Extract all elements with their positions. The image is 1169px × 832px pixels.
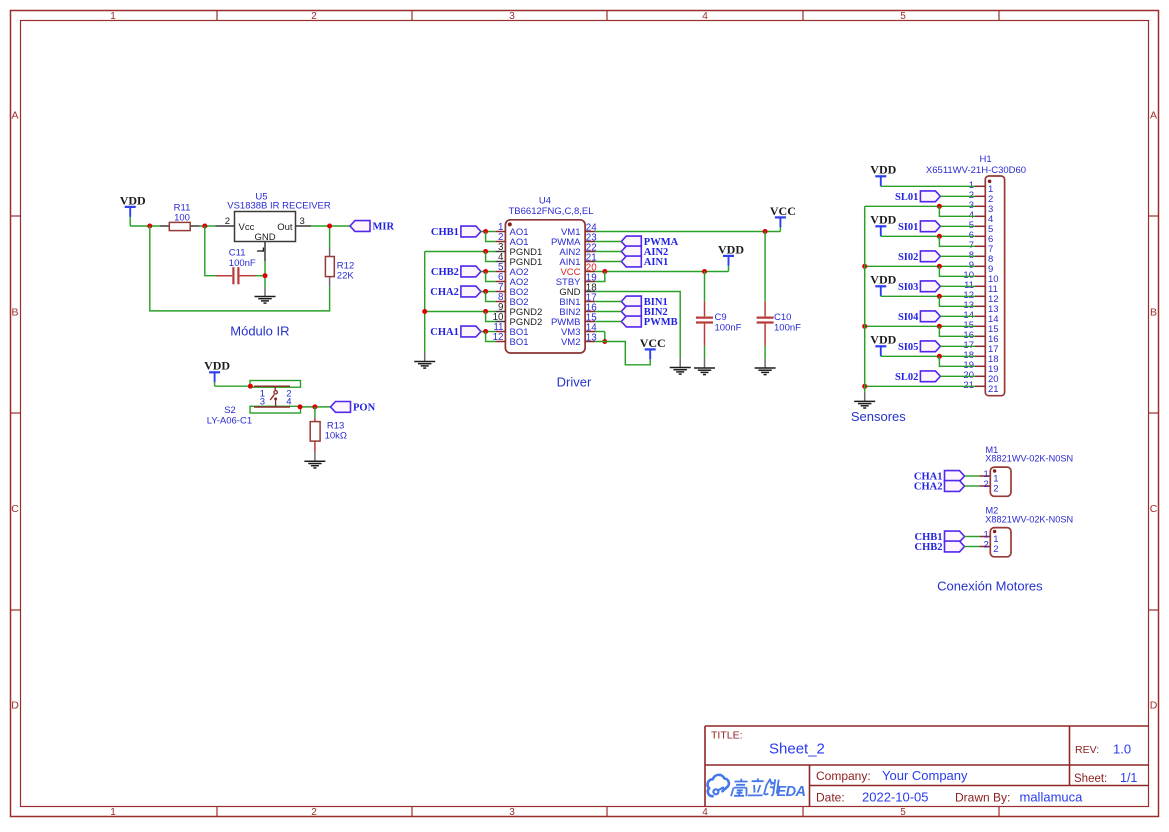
connector H1 X6511WV-21H-C30D60 [926,154,1026,396]
wire VDD to C9 [704,272,706,302]
junction PON/R13 node [312,404,317,409]
svg-text:VDD: VDD [870,163,896,177]
U5 pin 3 [296,225,312,227]
junction [937,294,942,299]
net flag MIR [350,221,394,233]
resistor R11 [160,203,200,231]
M1 pin 1 [979,469,998,485]
wire bottom return R12 [150,226,330,311]
wire VDD to H1.12 [881,295,975,297]
H1 pin 1 [969,180,994,195]
junction VDD/R11 node [147,224,152,229]
svg-text:X8821WV-02K-N0SN: X8821WV-02K-N0SN [985,454,1073,464]
svg-text:Conexión Motores: Conexión Motores [937,579,1043,594]
M1 pin 2 [979,479,998,495]
wire VM3 branch [604,332,606,342]
junction [483,309,488,314]
wire VDD to H1.6 [881,235,975,237]
power flag VDD (switch) [204,359,230,387]
H1 pin 20 [963,370,998,385]
net flag CHB2 [431,266,481,278]
svg-text:21: 21 [963,380,974,391]
svg-text:4: 4 [286,397,291,408]
wire H1 GND trunk [864,206,866,392]
junction [483,269,488,274]
power flag VDD (H1 pin12) [870,273,896,297]
wire U4.18 GND [595,292,680,359]
junction R11/C11 node [202,224,207,229]
U4 pin 19 STBY [556,273,597,288]
svg-text:CHA2: CHA2 [914,482,943,493]
U4 pin 9 PGND2 [495,302,542,318]
svg-text:H1: H1 [980,154,992,165]
wire VDD to H1.19 [939,356,975,366]
net flag SL02 [895,371,940,383]
svg-text:4: 4 [702,11,708,22]
capacitor C10 [757,301,802,346]
wire PGND2 to U4.9 [425,311,496,313]
net flag PON [331,402,376,414]
svg-text:Your Company: Your Company [882,768,968,783]
power flag VCC (VM1) [770,204,796,232]
svg-text:GND: GND [254,232,275,243]
net flag SI01 [898,221,940,233]
H1 pin 19 [963,360,998,375]
wire U5.3 to MIR [311,225,350,227]
net flag SL01 [895,191,940,203]
svg-text:Sheet:: Sheet: [1074,773,1107,785]
svg-text:TITLE:: TITLE: [711,730,743,742]
U4 pin 12 BO1 [493,332,529,348]
junction VDD/C9 [702,269,707,274]
power flag VDD (H1 pin1) [870,163,896,187]
U4 pin 16 BIN2 [559,303,597,318]
svg-text:CHB1: CHB1 [431,227,459,238]
net flag AIN2 [621,246,668,258]
wire CHB1 to U4.2 [486,232,496,242]
junction [483,289,488,294]
wire CHA2 to U4.8 [486,292,496,302]
svg-text:REV:: REV: [1075,744,1099,756]
svg-text:4: 4 [702,807,708,818]
svg-text:X8821WV-02K-N0SN: X8821WV-02K-N0SN [985,515,1073,525]
wire C10 to ground [764,346,766,359]
H1 pin 15 [963,320,998,335]
svg-text:SI02: SI02 [898,252,918,263]
ground (R13) [304,452,325,468]
svg-text:2: 2 [993,484,998,495]
wire SI05 to H1.17 [940,345,975,347]
svg-text:VCC: VCC [770,204,796,218]
M2 pin 1 [979,530,998,546]
svg-text:C: C [11,503,19,515]
svg-text:2: 2 [311,11,317,22]
svg-text:2: 2 [311,807,317,818]
svg-text:B: B [1150,306,1157,318]
wire GND to H1.16 [939,326,975,336]
svg-text:21: 21 [988,384,999,395]
U4 pin 5 AO2 [495,262,528,278]
svg-text:Vcc: Vcc [239,222,255,233]
IC U4 TB6612FNG [505,196,593,354]
capacitor C11 [216,247,256,284]
junction PGND trunk [422,309,427,314]
junction [937,354,942,359]
svg-text:C10: C10 [774,312,791,323]
U5 pin 2 [216,225,235,227]
wire VDD to R11 [130,225,160,227]
junction OUT/R12 node [327,224,332,229]
wire SL02 to H1.20 [940,375,975,377]
svg-text:CHB2: CHB2 [431,267,459,278]
H1 pin 4 [969,210,994,225]
net flag SI05 [898,341,940,353]
wire PGND trunk [424,252,426,353]
H1 pin 10 [963,270,998,285]
U4 pin 2 AO1 [495,232,528,248]
svg-text:EDA: EDA [777,784,806,800]
wire GND to H1.4 [939,206,975,216]
svg-text:Sensores: Sensores [851,409,906,424]
wire U4.20 VCC to VDD [595,271,728,273]
wire R11 to U5.2 [200,225,216,227]
H1 pin 8 [969,250,994,265]
junction [937,264,942,269]
U4 pin 4 PGND1 [495,252,542,268]
junction H1 trunk [862,384,867,389]
net flag CHA1 [914,471,965,483]
M2 pin 2 [979,540,998,556]
ground (C9) [694,359,715,375]
svg-text:AIN1: AIN1 [644,257,669,268]
svg-text:VDD: VDD [870,213,896,227]
svg-text:SI03: SI03 [898,282,918,293]
switch S2 LY-A06-C1 [207,381,301,427]
svg-text:Company:: Company: [816,769,871,783]
wire MIR node to R12 [329,226,331,247]
U4 pin 13 VM2 [561,333,597,348]
net flag SI02 [898,251,940,263]
title block [705,726,1149,807]
net flag AIN1 [621,256,668,268]
title block text [711,730,1137,805]
U4 pin 21 AIN1 [559,253,596,268]
svg-text:CHA1: CHA1 [430,327,459,338]
power flag VDD (driver) [718,242,744,271]
U4 pin 23 PWMA [551,233,597,248]
wire CHA1 to U4.11 [481,331,496,333]
H1 pin 11 [964,280,998,295]
H1 pin 21 [963,380,998,395]
IC U5 VS1838B IR RECEIVER [216,191,331,261]
H1 pin 9 [969,260,994,275]
H1 pin 14 [963,310,998,325]
svg-text:100nF: 100nF [715,323,742,334]
ground (U4 GND) [670,358,691,374]
svg-text:2: 2 [993,544,998,555]
wire CHA1 to U4.12 [486,332,496,342]
net flag SI03 [898,281,940,293]
svg-text:D: D [11,700,19,712]
power flag VDD (H1 pin18) [870,333,896,357]
U4 pin 1 AO1 [495,222,528,238]
ground (IR module) [255,287,276,303]
wire SI02 to H1.8 [940,255,975,257]
svg-text:10kΩ: 10kΩ [325,430,347,441]
svg-text:VDD: VDD [870,333,896,347]
U4 pin 20 VCC [560,263,597,278]
U4 pin 22 AIN2 [559,243,596,258]
svg-text:1: 1 [110,807,116,818]
wire R11 node to C11 [205,226,216,276]
svg-text:2022-10-05: 2022-10-05 [862,790,929,805]
svg-text:1.0: 1.0 [1113,742,1131,757]
junction [483,249,488,254]
svg-text:VDD: VDD [870,273,896,287]
wire STBY to VCC net [595,272,605,282]
wire U4.13 VM2 to VCC [595,342,650,365]
svg-text:VDD: VDD [718,242,744,256]
ground (U4 PGND) [414,352,435,368]
svg-text:3: 3 [509,807,515,818]
resistor R13 [310,418,347,452]
svg-text:A: A [11,110,18,122]
svg-text:SI05: SI05 [898,342,918,353]
svg-text:B: B [11,306,18,318]
H1 pin 5 [969,220,994,235]
H1 pin 3 [969,200,994,215]
net flag BIN2 [621,306,667,318]
svg-text:CHB2: CHB2 [914,542,942,553]
U4 pin 15 PWMB [551,313,597,328]
power flag VDD (IR module) [120,193,146,226]
wire GND to H1.15 [865,325,975,327]
junction [483,229,488,234]
net flag CHA2 [914,481,965,493]
svg-text:Sheet_2: Sheet_2 [769,741,825,758]
wire SI01 to H1.5 [940,225,975,227]
svg-text:SI01: SI01 [898,222,918,233]
U4 pin 3 PGND1 [495,242,542,258]
svg-text:100: 100 [174,212,190,223]
wire U5 GND down [264,261,266,287]
wire U4.14 VM3 [595,331,605,333]
svg-text:5: 5 [900,807,906,818]
wire GND to H1.9 [865,265,975,267]
U4 pin 10 PGND2 [493,312,543,328]
svg-text:1: 1 [110,11,116,22]
H1 pin 7 [969,240,994,255]
H1 pin 16 [963,330,998,345]
net flag SI04 [898,311,940,323]
wire SI03 to H1.11 [940,285,975,287]
svg-text:2: 2 [984,540,989,551]
svg-text:CHA2: CHA2 [430,287,459,298]
wire S2.4 to PON [301,406,331,408]
svg-text:C: C [1150,503,1158,515]
wire U4.22 to AIN2 [595,251,621,253]
svg-text:PWMB: PWMB [644,317,678,328]
wire U4.24 VM1 to VCC [595,231,780,233]
wire CHB1 to U4.1 [481,231,496,233]
wire SL01 to H1.2 [940,195,975,197]
capacitor C9 [696,301,742,346]
junction [937,324,942,329]
svg-text:SI04: SI04 [898,312,919,323]
svg-text:Date:: Date: [816,791,845,805]
power flag VCC (VM2) [640,336,666,360]
svg-text:BO1: BO1 [510,337,529,348]
svg-text:LY-A06-C1: LY-A06-C1 [207,415,252,426]
svg-text:C9: C9 [715,312,727,323]
svg-text:22K: 22K [337,271,355,282]
svg-text:100nF: 100nF [774,323,801,334]
junction VCC/STBY [602,269,607,274]
H1 pin 6 [969,230,994,245]
svg-text:X6511WV-21H-C30D60: X6511WV-21H-C30D60 [926,165,1026,176]
svg-text:Módulo IR: Módulo IR [230,324,289,339]
wire PGND1 to U4.3 [425,251,496,253]
wire CHA1 to M1.1 [965,475,980,477]
svg-text:2: 2 [984,479,989,490]
wire CHB1 to M2.1 [965,536,980,538]
EasyEDA (JLC) logo [708,775,806,800]
svg-text:1/1: 1/1 [1120,771,1137,785]
wire VDD to H1.18 [881,355,975,357]
svg-text:VS1838B IR RECEIVER: VS1838B IR RECEIVER [227,201,331,212]
U4 pin 18 GND [559,283,597,298]
svg-text:3: 3 [300,216,305,227]
svg-text:Drawn By:: Drawn By: [955,791,1010,805]
net flag CHA2 [430,286,481,298]
net flag CHA1 [430,326,481,338]
wire C11 to GND node [256,275,264,277]
wire CHB2 to M2.2 [965,546,980,548]
junction H1 trunk [862,324,867,329]
wire PGND1 to U4.4 [486,252,496,262]
svg-text:5: 5 [900,11,906,22]
U4 pin 14 VM3 [561,323,597,338]
junction [937,234,942,239]
junction S2 pin4 [298,404,303,409]
net flag CHB1 [431,226,481,238]
wire VDD to H1.13 [939,296,975,306]
wire CHB2 to U4.5 [481,271,496,273]
wire U4.17 to BIN1 [595,301,621,303]
connector M1 X8821WV-02K-N0SN [985,445,1073,497]
svg-text:VDD: VDD [204,359,230,373]
wire GND to H1.3 [865,205,975,207]
wire CHA2 to U4.7 [481,291,496,293]
U4 pin 17 BIN1 [559,293,596,308]
wire VDD to H1.7 [939,236,975,246]
U4 pin 11 BO1 [493,322,528,338]
H1 pin 2 [969,190,994,205]
H1 pin 13 [963,300,998,315]
U4 pin 6 AO2 [495,272,528,288]
junction H1 trunk [862,264,867,269]
ground (C10) [755,359,776,375]
wire PON node to R13 [314,407,316,418]
svg-text:Driver: Driver [557,374,592,389]
wire VDD to H1.1 [881,185,975,187]
svg-text:TB6612FNG,C,8,EL: TB6612FNG,C,8,EL [508,206,593,217]
U4 pin 7 BO2 [495,282,528,298]
H1 pin 12 [963,290,998,305]
svg-text:C11: C11 [229,247,246,258]
H1 pin 18 [963,350,998,365]
U4 pin 8 BO2 [495,292,528,308]
svg-text:3: 3 [509,11,515,22]
wire U4.21 to AIN1 [595,261,621,263]
junction VM1/C10 [763,229,768,234]
wire VDD to S2.1 [215,385,251,387]
net flag BIN1 [621,296,667,308]
H1 pin 17 [963,340,998,355]
U5 pin 1 GND [264,242,266,262]
wire U4.16 to BIN2 [595,311,621,313]
svg-text:3: 3 [260,397,265,408]
junction [937,204,942,209]
svg-text:mallamuca: mallamuca [1020,790,1084,805]
junction VM2/VM3 [602,339,607,344]
wire SI04 to H1.14 [940,315,975,317]
svg-text:U4: U4 [539,196,551,207]
wire GND to H1.21 [865,385,975,387]
svg-text:VM2: VM2 [561,337,581,348]
wire VCC to C10 [764,232,766,302]
wire CHA2 to M1.2 [965,485,980,487]
junction [483,329,488,334]
resistor R12 [325,247,354,286]
svg-text:SL02: SL02 [895,372,918,383]
svg-text:MIR: MIR [373,222,395,233]
svg-text:SL01: SL01 [895,192,918,203]
wire GND to H1.10 [939,266,975,276]
svg-text:VCC: VCC [640,336,666,350]
svg-text:VDD: VDD [120,193,146,207]
svg-text:PON: PON [353,402,376,413]
svg-text:2: 2 [225,216,230,227]
connector M2 X8821WV-02K-N0SN [985,506,1073,557]
wire C9 to ground [704,346,706,359]
wire PGND2 to U4.10 [486,312,496,322]
wire U4.15 to PWMB [595,321,621,323]
net flag CHB1 [914,531,964,543]
net flag PWMA [621,236,678,248]
wire U4.23 to PWMA [595,241,621,243]
net flag PWMB [621,316,677,328]
svg-text:A: A [1150,110,1157,122]
svg-text:D: D [1150,700,1158,712]
junction S2 pin1 [248,384,253,389]
wire CHB2 to U4.6 [486,272,496,282]
ground (H1) [854,392,875,408]
svg-text:S2: S2 [224,405,236,416]
svg-text:Out: Out [277,222,293,233]
net flag CHB2 [914,541,964,553]
U4 pin 24 VM1 [561,223,597,238]
power flag VDD (H1 pin6) [870,213,896,237]
junction C11/GND node [263,273,268,278]
